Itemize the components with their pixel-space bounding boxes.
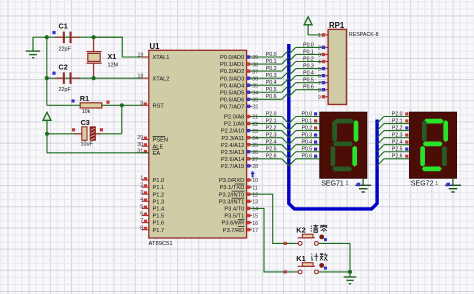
svg-text:P0.0: P0.0: [303, 42, 314, 48]
svg-text:P0.7/AD7: P0.7/AD7: [220, 104, 244, 110]
svg-text:P0.1: P0.1: [302, 118, 313, 124]
svg-text:P0.1: P0.1: [303, 49, 314, 55]
svg-text:P2.0: P2.0: [392, 111, 403, 117]
svg-text:P3.7/RD: P3.7/RD: [223, 228, 245, 234]
svg-text:P0.3: P0.3: [303, 63, 314, 69]
svg-text:P2.7/A15: P2.7/A15: [221, 164, 244, 170]
svg-text:P2.1: P2.1: [392, 118, 403, 124]
svg-text:P2.0/A8: P2.0/A8: [224, 115, 244, 121]
svg-text:P2.6: P2.6: [392, 154, 403, 160]
svg-text:AT89C51: AT89C51: [149, 241, 173, 247]
svg-text:P2.3/A11: P2.3/A11: [221, 136, 244, 142]
svg-text:PSEN: PSEN: [153, 138, 169, 144]
svg-text:4: 4: [318, 60, 321, 66]
svg-text:P0.2: P0.2: [266, 66, 277, 72]
svg-text:5: 5: [318, 67, 321, 73]
svg-text:C2: C2: [59, 62, 68, 71]
svg-text:P0.6/AD6: P0.6/AD6: [220, 97, 244, 103]
svg-text:P2.2: P2.2: [266, 126, 277, 132]
svg-text:39: 39: [252, 55, 258, 61]
svg-text:P1.4: P1.4: [153, 207, 165, 213]
svg-text:13: 13: [252, 200, 258, 206]
svg-text:12M: 12M: [108, 63, 119, 69]
svg-text:P0.2: P0.2: [302, 126, 313, 132]
svg-text:P1.2: P1.2: [153, 192, 165, 198]
svg-text:22pF: 22pF: [59, 46, 72, 52]
svg-text:8: 8: [318, 88, 321, 94]
svg-text:P2.6/A14: P2.6/A14: [221, 157, 244, 163]
svg-text:P2.0: P2.0: [266, 111, 277, 117]
svg-text:23: 23: [252, 129, 258, 135]
svg-text:P2.2: P2.2: [392, 126, 403, 132]
svg-text:10: 10: [252, 178, 258, 184]
svg-text:K1: K1: [296, 254, 305, 263]
svg-text:P0.5: P0.5: [302, 147, 313, 153]
svg-text:38: 38: [252, 62, 258, 68]
svg-text:34: 34: [252, 90, 258, 96]
svg-text:RST: RST: [153, 103, 165, 109]
svg-text:P0.5: P0.5: [266, 87, 277, 93]
svg-text:P0.0: P0.0: [302, 111, 313, 117]
svg-text:31: 31: [137, 148, 143, 154]
svg-text:30: 30: [137, 142, 143, 148]
svg-text:P0.3: P0.3: [302, 133, 313, 139]
svg-text:P1.0: P1.0: [153, 178, 165, 184]
svg-text:P0.4/AD4: P0.4/AD4: [220, 83, 244, 89]
svg-text:P0.1/AD1: P0.1/AD1: [220, 62, 244, 68]
svg-text:P3.5/T1: P3.5/T1: [224, 214, 244, 220]
svg-text:P0.4: P0.4: [266, 80, 277, 86]
svg-text:P2.2/A10: P2.2/A10: [221, 129, 244, 135]
svg-text:R1: R1: [80, 94, 89, 103]
svg-text:1: 1: [140, 176, 143, 182]
svg-text:P0.6: P0.6: [303, 85, 314, 91]
svg-text:5: 5: [140, 204, 143, 210]
svg-text:P0.1: P0.1: [266, 59, 277, 65]
svg-text:XTAL1: XTAL1: [153, 55, 170, 61]
svg-text:22: 22: [252, 122, 258, 128]
svg-text:EA: EA: [153, 151, 161, 157]
svg-text:P1.3: P1.3: [153, 199, 165, 205]
svg-text:2: 2: [140, 183, 143, 189]
svg-text:P3.1/TXD: P3.1/TXD: [220, 185, 245, 191]
svg-text:P0.0: P0.0: [266, 52, 277, 58]
svg-text:P1.7: P1.7: [153, 228, 165, 234]
svg-text:P2.6: P2.6: [266, 154, 277, 160]
svg-text:17: 17: [252, 228, 258, 234]
svg-text:37: 37: [252, 69, 258, 75]
svg-text:SEG71: SEG71: [321, 180, 344, 187]
svg-text:6: 6: [140, 211, 143, 217]
svg-text:P3.2/INT0: P3.2/INT0: [219, 192, 245, 198]
svg-text:26: 26: [252, 150, 258, 156]
svg-text:1: 1: [435, 181, 438, 187]
svg-text:21: 21: [252, 115, 258, 121]
svg-text:9: 9: [140, 101, 143, 107]
svg-text:P3.6/WR: P3.6/WR: [222, 221, 245, 227]
svg-text:36: 36: [252, 76, 258, 82]
svg-text:P0.6: P0.6: [302, 154, 313, 160]
svg-text:P2.4/A12: P2.4/A12: [221, 143, 244, 149]
svg-text:P1.1: P1.1: [153, 185, 165, 191]
svg-text:P1.6: P1.6: [153, 221, 165, 227]
svg-text:P3.3/INT1: P3.3/INT1: [219, 199, 245, 205]
svg-text:P0.4: P0.4: [302, 140, 313, 146]
svg-text:10uF: 10uF: [81, 141, 94, 147]
svg-text:P2.3: P2.3: [392, 133, 403, 139]
svg-text:15: 15: [252, 214, 258, 220]
svg-text:7: 7: [140, 218, 143, 224]
svg-text:P0.5: P0.5: [303, 78, 314, 84]
svg-text:RP1: RP1: [329, 21, 345, 30]
svg-text:35: 35: [252, 83, 258, 89]
svg-text:33: 33: [252, 98, 258, 104]
svg-text:P2.4: P2.4: [392, 140, 403, 146]
svg-text:P2.5: P2.5: [266, 147, 277, 153]
svg-text:28: 28: [252, 164, 258, 170]
svg-text:P0.3/AD3: P0.3/AD3: [220, 76, 244, 82]
svg-text:6: 6: [318, 74, 321, 80]
svg-text:11: 11: [252, 185, 258, 191]
svg-text:27: 27: [252, 157, 258, 163]
svg-text:RESPACK-8: RESPACK-8: [349, 32, 379, 38]
svg-text:C1: C1: [59, 22, 68, 31]
svg-text:14: 14: [252, 207, 258, 213]
svg-text:P0.2: P0.2: [303, 56, 314, 62]
svg-text:P2.5/A13: P2.5/A13: [221, 150, 244, 156]
svg-text:P2.5: P2.5: [392, 147, 403, 153]
svg-text:XTAL2: XTAL2: [153, 76, 170, 82]
svg-text:P0.5/AD5: P0.5/AD5: [220, 90, 244, 96]
svg-text:P0.0/AD0: P0.0/AD0: [220, 55, 244, 61]
svg-text:SEG72: SEG72: [411, 180, 434, 187]
svg-text:22pF: 22pF: [59, 87, 72, 93]
svg-text:12: 12: [252, 192, 258, 198]
svg-text:16: 16: [252, 221, 258, 227]
svg-text:P1.5: P1.5: [153, 214, 165, 220]
svg-text:C3: C3: [81, 118, 90, 127]
svg-text:P3.4/T0: P3.4/T0: [224, 207, 244, 213]
svg-text:4: 4: [140, 197, 143, 203]
svg-text:P0.4: P0.4: [303, 71, 314, 77]
svg-text:P0.3: P0.3: [266, 73, 277, 79]
svg-text:P2.4: P2.4: [266, 140, 277, 146]
svg-text:9: 9: [318, 95, 321, 101]
svg-text:32: 32: [252, 105, 258, 111]
svg-text:8: 8: [140, 225, 143, 231]
svg-text:3: 3: [140, 190, 143, 196]
svg-text:P2.3: P2.3: [266, 133, 277, 139]
svg-text:29: 29: [137, 135, 143, 141]
svg-text:U1: U1: [150, 42, 161, 51]
svg-text:P2.1: P2.1: [266, 118, 277, 124]
svg-text:7: 7: [318, 81, 321, 87]
svg-text:P2.1/A9: P2.1/A9: [224, 122, 244, 128]
svg-text:1: 1: [318, 33, 321, 39]
svg-text:P0.6: P0.6: [266, 94, 277, 100]
svg-text:25: 25: [252, 143, 258, 149]
svg-text:1: 1: [346, 181, 349, 187]
svg-text:X1: X1: [108, 52, 117, 61]
svg-text:3: 3: [318, 53, 321, 59]
svg-text:P0.2/AD2: P0.2/AD2: [220, 69, 244, 75]
svg-text:10k: 10k: [82, 109, 91, 115]
svg-text:P3.0/RXD: P3.0/RXD: [219, 178, 244, 184]
svg-text:K2: K2: [296, 225, 305, 234]
svg-text:2: 2: [318, 46, 321, 52]
svg-text:24: 24: [252, 136, 258, 142]
